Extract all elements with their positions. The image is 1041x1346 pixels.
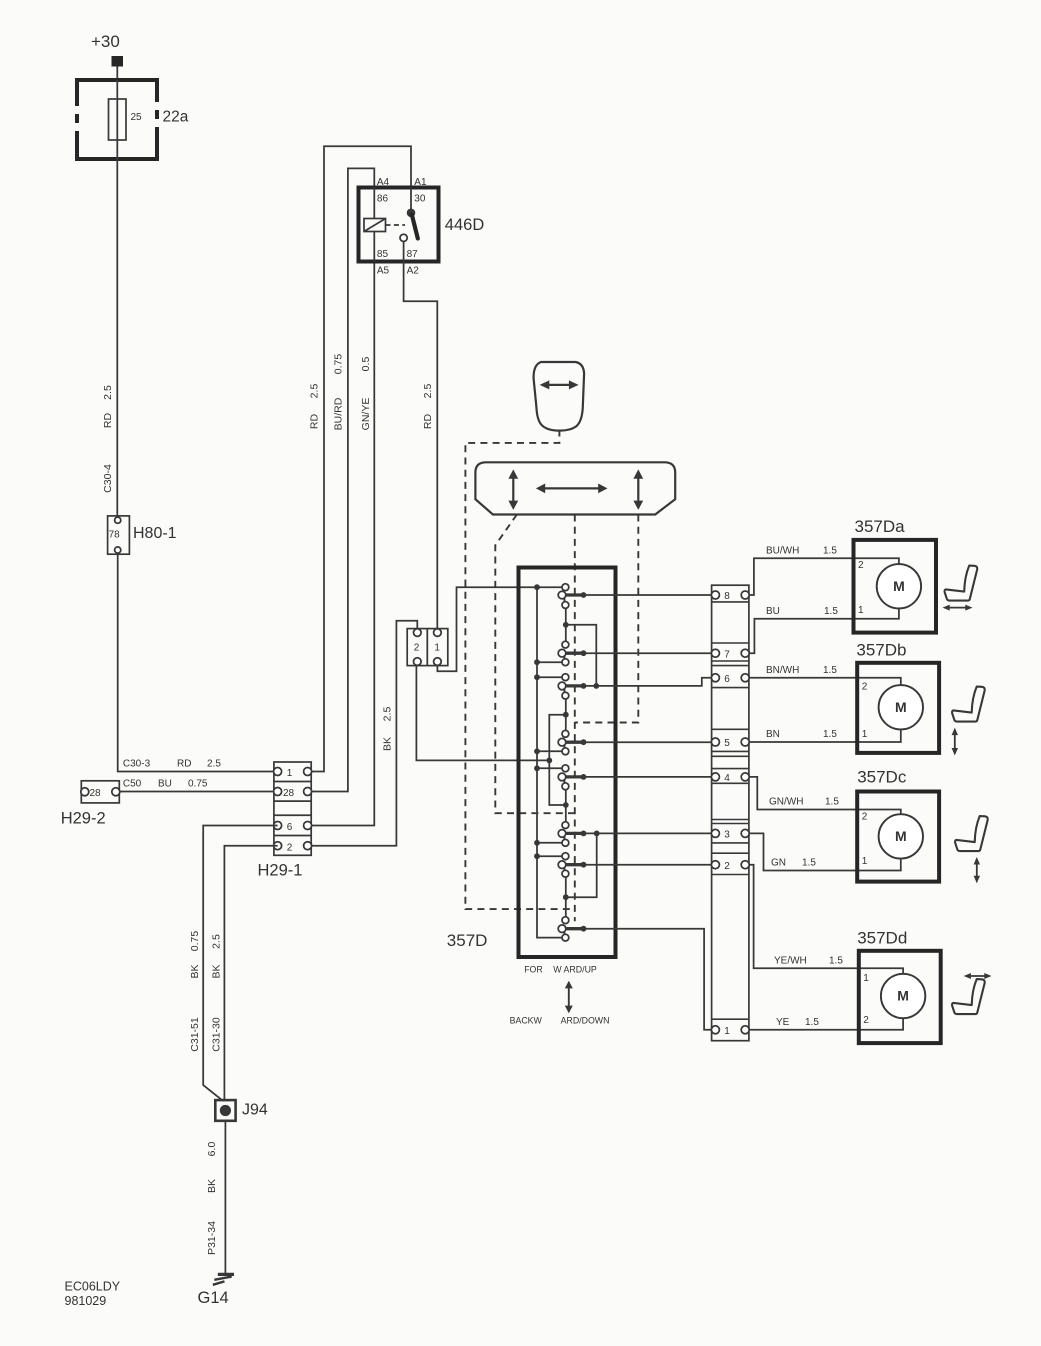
switch 357D housing [519,568,616,958]
motor 357Db [857,663,939,753]
svg-text:YE: YE [776,1017,790,1028]
wire X2 pin2 to switch ground bus [416,665,549,760]
svg-text:BU: BU [158,779,172,790]
svg-text:FOR: FOR [524,965,543,975]
svg-text:M: M [893,578,905,594]
svg-text:86: 86 [377,194,389,205]
svg-text:357D: 357D [447,931,488,950]
wire GN 1.5 terminal 3 to 357Dc pin 1 [749,833,901,870]
wire BU/RD 0.75 H29-1 pin28 to relay 86/A4 [308,168,375,791]
svg-text:2: 2 [863,1015,869,1026]
switch section S5: contacts and lever [558,765,586,790]
label BN/WH 1.5 [766,665,837,676]
svg-text:M: M [895,828,907,844]
svg-text:357Dd: 357Dd [857,929,907,948]
wire S3 to terminal 6 [584,678,712,686]
svg-text:981029: 981029 [65,1294,107,1308]
fuse element 25 [109,99,143,140]
wire BU/WH 1.5 terminal 8 to 357Da pin 2 [749,558,899,595]
svg-text:3: 3 [724,830,730,841]
svg-text:P31-34: P31-34 [206,1221,218,1255]
seat icon front height (357Db) [952,687,985,756]
svg-text:W ARD/UP: W ARD/UP [553,965,597,975]
switch panel face [475,462,675,514]
motor 357Dd [859,951,941,1043]
svg-text:C31-51: C31-51 [189,1017,201,1052]
svg-text:2: 2 [862,681,868,692]
svg-text:446D: 446D [445,216,485,234]
wire S6 to terminal 3 [584,832,712,834]
svg-text:2.5: 2.5 [381,707,393,722]
wire GN/YE 0.5 relay 85/A5 to H29-1 pin6 [308,262,375,826]
svg-text:A2: A2 [407,266,420,277]
ground G14 [213,1274,234,1284]
svg-text:4: 4 [724,773,730,784]
link S3 bottom to S4 top [563,699,569,730]
svg-text:H80-1: H80-1 [133,525,177,542]
wire S8 to terminal 1 [584,929,712,1030]
wire BK 2.5 H29-1 pin2 to J94 [224,846,277,1100]
label YE/WH 1.5 [774,956,843,967]
wire BK 6.0 J94 to G14 [224,1121,226,1274]
dashed link panel right [575,515,639,723]
selector knob [534,362,585,431]
wire BN/WH 1.5 terminal 6 to 357Db pin 2 [749,678,901,685]
svg-text:1.5: 1.5 [824,606,838,617]
wire label BU/RD 0.75 (col2) [332,354,344,431]
svg-text:EC06LDY: EC06LDY [65,1280,121,1294]
wire X2 pin1 to switch feed [437,587,562,671]
svg-text:6.0: 6.0 [206,1142,218,1157]
wire RD 2.5 H29-1 pin1 to relay 30/A1 [308,146,411,771]
svg-text:1.5: 1.5 [829,956,843,967]
wire BN 1.5 terminal 5 to 357Db pin 1 [749,729,901,742]
svg-text:2.5: 2.5 [102,385,114,400]
svg-text:BACKW: BACKW [510,1016,543,1026]
seat icon fore/aft (357Da) [943,566,978,611]
wire YE/WH 1.5 terminal 2 to 357Dd pin 1 [749,865,903,974]
fuse box 22a (dashed frame) [75,78,159,161]
switch section S6: contacts and lever [558,822,586,847]
panel arrow up/down right [633,469,643,510]
strip terminal 6 [711,674,749,685]
svg-text:RD: RD [177,759,191,770]
svg-text:C50: C50 [123,779,142,790]
connector H29-2 [81,781,120,803]
link S7 bottom to S8 top with tap [563,831,600,917]
svg-text:BU: BU [766,606,780,617]
labels C50 BU 0.75 [123,779,208,790]
svg-text:1.5: 1.5 [823,545,837,556]
label BN 1.5 [766,729,837,740]
relay actuator dashed link [386,224,406,226]
wire S7 to terminal 2 [584,864,712,866]
svg-text:1.5: 1.5 [825,797,839,808]
svg-text:1.5: 1.5 [823,729,837,740]
svg-text:GN/WH: GN/WH [769,797,803,808]
wire S2 to terminal 7 [584,652,712,654]
wire RD 2.5 fuse to H80-1 [116,161,118,516]
svg-text:1: 1 [862,856,868,867]
svg-text:H29-1: H29-1 [258,862,303,880]
svg-text:2.5: 2.5 [207,759,221,770]
strip terminal 2 [711,861,749,872]
panel arrow up/down left [508,469,518,510]
svg-text:RD: RD [308,414,320,430]
bus A junction dots [534,584,540,859]
value label RD 2.5 [102,385,114,428]
wire RD 2.5 relay 87/A2 to connector X2 pin 1 [404,262,438,629]
wire BK 2.5 H29-1 pin2 up to X2 pin 2 [308,621,418,846]
svg-text:M: M [897,988,909,1004]
arrow forward/backward [565,981,573,1014]
wire through fuse [116,80,118,161]
svg-text:BK: BK [206,1179,218,1193]
svg-text:87: 87 [407,249,419,260]
svg-text:BN: BN [766,729,780,740]
svg-text:357Da: 357Da [855,517,906,536]
connector X 2|1 [407,629,448,666]
seat icon backrest (357Dd) [952,973,991,1014]
svg-text:1: 1 [434,643,440,654]
strip terminal 1 [711,1026,749,1037]
label GN/WH 1.5 [769,797,839,808]
svg-text:+30: +30 [91,32,120,51]
label BU/WH 1.5 [766,545,837,556]
svg-text:GN/YE: GN/YE [360,398,372,431]
wire label GN/YE 0.5 (col3) [360,357,372,431]
svg-text:2.5: 2.5 [210,934,222,949]
wire label RD 2.5 (col4) [422,384,434,430]
svg-text:5: 5 [724,738,730,749]
strip terminal 3 [711,829,749,840]
svg-text:C30-3: C30-3 [123,759,151,770]
link S1 bottom to S2 top with tap [563,608,599,688]
connector H29-1 [274,762,312,855]
label BU 1.5 [766,606,838,617]
svg-text:1.5: 1.5 [802,858,816,869]
strip terminal 4 [711,773,749,784]
svg-text:G14: G14 [198,1289,229,1307]
knob arrow [540,380,579,389]
svg-text:BK: BK [381,737,393,751]
svg-text:YE/WH: YE/WH [774,956,807,967]
svg-text:A1: A1 [414,177,427,188]
relay switch contact 30-87 [400,188,418,262]
svg-text:C31-30: C31-30 [210,1017,222,1052]
wire +30 to fuse 22a [116,67,118,79]
svg-text:28: 28 [283,788,295,799]
svg-text:RD: RD [422,414,434,430]
strip terminal 8 [711,591,749,602]
svg-text:2: 2 [414,643,420,654]
bus A stubs to contacts [537,662,562,856]
wire label RD 2.5 (col1) [308,384,320,430]
svg-text:2: 2 [858,560,864,571]
wire S5 to terminal 4 [584,776,712,778]
switch common bus A [537,587,562,937]
svg-text:BN/WH: BN/WH [766,665,799,676]
switch section S7: contacts and lever [558,853,586,877]
dashed link knob to switch frame [465,430,574,910]
switch ground bus B [546,715,566,805]
labels C30-3 RD 2.5 [123,759,221,770]
wire S4 to terminal 5 [584,741,712,743]
svg-text:GN: GN [771,858,786,869]
svg-text:H29-2: H29-2 [61,810,106,828]
switch section S3: contacts and lever [558,674,586,699]
label YE 1.5 [776,1017,819,1028]
label EC06LDY 981029 [65,1280,121,1308]
svg-text:C30-4: C30-4 [102,464,114,493]
switch section S4: contacts and lever [558,730,586,754]
wire RD 2.5 H80-1 to H29-1 pin 1 [118,554,274,772]
motor 357Dc [857,792,939,882]
svg-text:1: 1 [724,1026,730,1037]
motor 357Da [854,540,937,633]
svg-text:1: 1 [858,605,864,616]
svg-text:1.5: 1.5 [823,665,837,676]
svg-text:357Dc: 357Dc [857,768,907,787]
wire BK 0.75 H29-1 pin6 to J94 [203,826,277,1101]
svg-text:A5: A5 [377,266,390,277]
svg-text:BK: BK [210,964,222,978]
svg-text:357Db: 357Db [856,640,906,659]
svg-text:1: 1 [862,729,868,740]
svg-text:2: 2 [724,861,730,872]
dashed link panel center [574,515,576,922]
seat-motor connector strip [712,585,749,1040]
svg-text:BK: BK [189,964,201,978]
svg-text:BU/WH: BU/WH [766,545,799,556]
strip terminal 5 [711,738,749,749]
svg-text:A4: A4 [377,177,390,188]
svg-text:2: 2 [862,812,868,823]
switch section S8: contacts and lever [558,917,586,941]
label BACKWARD/DOWN [510,1016,610,1026]
svg-text:M: M [895,699,907,715]
wire YE 1.5 terminal 1 to 357Dd pin 2 [749,1018,903,1030]
svg-text:2.5: 2.5 [422,384,434,399]
wire label BK 2.5 (x396) [381,707,393,751]
junction J94 [215,1100,235,1121]
dashed link panel left [495,515,575,814]
svg-text:28: 28 [90,788,102,799]
svg-text:85: 85 [377,249,389,260]
svg-text:7: 7 [724,649,730,660]
svg-text:1.5: 1.5 [805,1017,819,1028]
svg-text:J94: J94 [242,1102,268,1119]
wire S1 to terminal 8 [584,594,712,596]
svg-text:0.75: 0.75 [188,779,208,790]
svg-text:78: 78 [109,530,121,541]
seat icon rear height (357Dc) [955,816,988,883]
svg-text:8: 8 [724,591,730,602]
switch section S1: contacts and lever [558,584,586,609]
svg-text:6: 6 [724,674,730,685]
svg-text:0.75: 0.75 [332,354,344,375]
wire C50 BU 0.75 H29-2 to H29-1 pin28 [120,791,274,793]
relay coil [364,188,386,262]
svg-text:2.5: 2.5 [308,384,320,399]
labels BK 0.75 C31-51 [189,931,201,1052]
relay 446D box [359,188,439,262]
svg-text:22a: 22a [163,109,189,126]
svg-text:1: 1 [863,973,869,984]
label FORWARD/UP [524,965,597,975]
svg-text:BU/RD: BU/RD [332,397,344,430]
svg-text:ARD/DOWN: ARD/DOWN [561,1016,610,1026]
svg-text:2: 2 [287,842,293,853]
svg-text:6: 6 [287,822,293,833]
relay pin labels A4 A1 86 30 85 87 A5 A2 [377,177,427,277]
switch section S2: contacts and lever [558,641,586,665]
link S5 bottom to S6 top [563,790,569,822]
labels BK 2.5 C31-30 [210,934,222,1052]
svg-text:30: 30 [414,194,426,205]
node +30 supply terminal [91,32,123,67]
svg-text:25: 25 [131,112,143,123]
labels BK 6.0 P31-34 [206,1142,218,1255]
label GN 1.5 [771,858,816,869]
svg-text:1: 1 [287,768,293,779]
svg-text:0.75: 0.75 [189,931,201,952]
connector H80-1 [108,516,130,554]
svg-text:RD: RD [102,413,114,429]
panel arrow fore/aft [536,484,608,494]
strip terminal 7 [711,649,749,660]
wire GN/WH 1.5 terminal 4 to 357Dc pin 2 [749,777,901,815]
svg-text:0.5: 0.5 [360,357,372,372]
wire BU 1.5 terminal 7 to 357Da pin 1 [749,608,899,653]
